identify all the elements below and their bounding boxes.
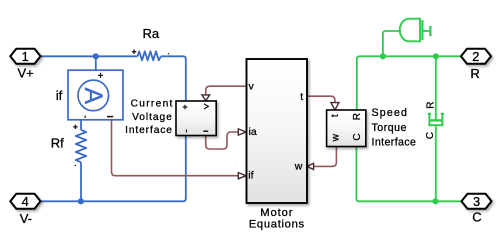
- svg-text:1: 1: [22, 49, 29, 64]
- svg-text:4: 4: [22, 194, 29, 209]
- svg-text:2: 2: [472, 49, 479, 64]
- svg-text:Motor: Motor: [260, 207, 293, 219]
- svg-text:C: C: [425, 132, 436, 139]
- svg-text:Speed: Speed: [372, 107, 409, 119]
- svg-text:Equations: Equations: [249, 219, 305, 231]
- svg-text:3: 3: [473, 194, 480, 209]
- svg-text:ia: ia: [249, 126, 257, 138]
- svg-text:Rf: Rf: [51, 135, 64, 150]
- svg-text:Interface: Interface: [372, 136, 417, 148]
- svg-text:t: t: [300, 91, 303, 103]
- svg-text:C: C: [352, 133, 363, 140]
- svg-text:V+: V+: [18, 66, 34, 81]
- svg-text:t: t: [330, 114, 341, 117]
- svg-text:Current: Current: [131, 99, 174, 110]
- svg-text:R: R: [425, 102, 436, 109]
- svg-text:if: if: [248, 170, 253, 182]
- svg-text:R: R: [470, 66, 479, 81]
- svg-text:A: A: [79, 87, 107, 104]
- svg-text:R: R: [352, 113, 363, 120]
- svg-text:Torque: Torque: [372, 122, 407, 134]
- svg-text:if: if: [56, 88, 63, 103]
- svg-text:V-: V-: [20, 211, 32, 226]
- svg-text:Voltage: Voltage: [132, 112, 173, 123]
- svg-text:Ra: Ra: [143, 26, 160, 41]
- svg-text:v: v: [249, 81, 255, 93]
- svg-text:Interface: Interface: [125, 125, 173, 136]
- svg-text:w: w: [330, 133, 341, 142]
- svg-text:w: w: [294, 161, 303, 173]
- svg-text:C: C: [472, 210, 481, 225]
